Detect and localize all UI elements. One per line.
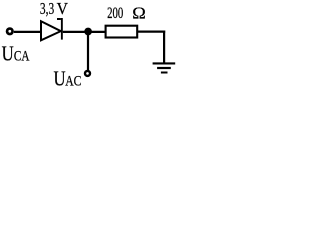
svg-text:V: V xyxy=(57,0,69,18)
svg-text:3,3: 3,3 xyxy=(40,0,54,18)
svg-text:Ω: Ω xyxy=(132,3,146,22)
svg-text:U: U xyxy=(2,43,14,66)
svg-text:U: U xyxy=(54,68,66,91)
svg-text:CA: CA xyxy=(14,47,30,64)
svg-text:200: 200 xyxy=(107,4,123,21)
svg-text:AC: AC xyxy=(65,72,81,89)
